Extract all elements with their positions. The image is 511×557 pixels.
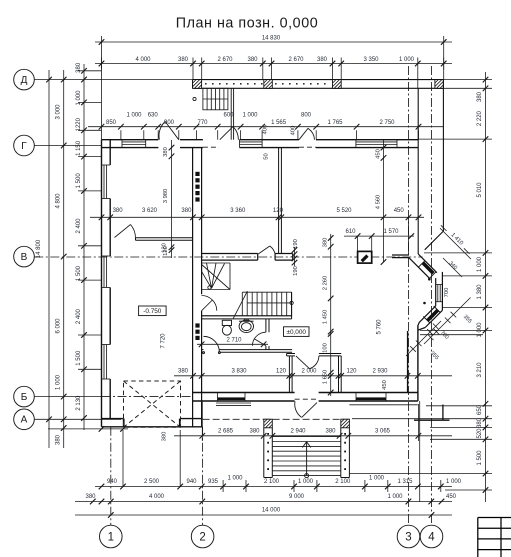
bay right wall + window 700 [436,272,443,310]
bathroom south wall [202,350,293,353]
svg-text:2 930: 2 930 [372,368,388,374]
svg-text:190: 190 [293,266,299,276]
svg-text:2 260: 2 260 [323,276,329,291]
svg-text:380: 380 [477,417,483,428]
door D5 in IW2 [258,246,275,254]
svg-text:3 210: 3 210 [477,362,483,378]
svg-text:1 000: 1 000 [369,476,385,482]
svg-text:650: 650 [477,404,483,415]
partition PT3 [339,356,342,393]
bathroom door [252,332,266,346]
dim row 14 000 [75,512,452,518]
vestibule wall top [231,88,233,139]
svg-text:630: 630 [148,112,159,118]
porch rails [264,428,350,478]
terrace column T2 [264,80,273,89]
ext line horiz at 334.7 [420,334,483,336]
svg-text:800: 800 [301,112,312,118]
title block table corner [478,518,511,557]
axis circle 1 [100,525,123,548]
svg-text:380: 380 [181,208,192,214]
svg-text:2 100: 2 100 [264,479,280,485]
svg-text:940: 940 [107,479,118,485]
svg-text:380: 380 [85,494,96,500]
svg-text:2 220: 2 220 [477,110,483,126]
svg-text:120: 120 [276,368,287,374]
partition left room 120 [136,238,193,241]
dim col 3000/4800/6000/1000/380 [61,70,67,448]
east wall [408,325,418,401]
svg-text:1 000: 1 000 [242,112,258,118]
dim 2710 [197,342,268,348]
svg-text:Б: Б [21,392,28,403]
wall B top face [193,392,418,394]
svg-text:770: 770 [197,120,208,126]
svg-text:400: 400 [263,125,269,135]
small steps below W4 [216,403,251,406]
svg-text:120: 120 [161,243,167,253]
wall A (bottom-left) [102,418,203,420]
svg-text:4 800: 4 800 [56,193,62,209]
svg-text:4 000: 4 000 [149,494,165,500]
dim col 190/190 (x=296) [292,247,298,266]
svg-text:2 100: 2 100 [335,479,351,485]
diag dims 355/700/355 [406,298,471,357]
svg-text:1 150: 1 150 [76,140,82,156]
axis circle Б [14,386,35,407]
door D1 in wall G [159,122,179,140]
dim col right 380/2220/5010/1000/1380/1000/3210/650/380/520/1500 [349,72,492,502]
wall G bottom face [102,147,419,149]
svg-text:1 000: 1 000 [56,374,62,390]
dim row 380/4000/9000/1000/450 [75,499,452,505]
lintel dashes passage P1 [203,146,316,148]
svg-text:2 670: 2 670 [217,57,233,63]
diag dim 1410 [440,225,471,259]
svg-text:В: В [21,252,28,263]
wall G window W1 [122,140,397,148]
svg-text:935: 935 [208,479,219,485]
svg-text:1 000: 1 000 [446,479,462,485]
svg-text:1 000: 1 000 [126,112,142,118]
svg-text:450: 450 [394,208,405,214]
svg-text:50: 50 [264,153,270,159]
bay bottom chamfer wall [418,306,443,330]
dim row 14 830 [95,36,452,48]
svg-text:4: 4 [428,532,435,544]
straight stair run [202,291,292,319]
svg-text:2 400: 2 400 [76,218,82,234]
svg-text:1 000: 1 000 [477,322,483,338]
title [176,15,318,31]
svg-text:3 350: 3 350 [363,57,379,63]
svg-text:380: 380 [317,57,328,63]
dim col 14 800 [46,70,52,448]
axis line 4 (dash-dot) [431,66,433,525]
dim line y=428.9 below A [48,426,128,432]
svg-text:1 500: 1 500 [477,450,483,466]
WC door arc [203,336,221,353]
svg-text:1 000: 1 000 [76,90,82,106]
svg-text:3 980: 3 980 [163,189,169,204]
svg-text:1 765: 1 765 [327,120,343,126]
dim row 940/2500/940/935/1000/2100/1000/2100/1000/1315/1000 [95,430,452,492]
entry double door D4 leaves outside [295,401,317,417]
svg-text:1 380: 1 380 [477,284,483,300]
dim row 380/3830/120/2000/120/2930/450 [174,373,452,379]
axis circle А [14,409,35,430]
dashed terrace with X [124,381,181,427]
terrace entry steps [203,88,228,110]
window W6 jambs in wall A [124,419,180,427]
partition PT2 [287,354,295,393]
svg-text:1 000: 1 000 [387,494,403,500]
svg-text:2 130: 2 130 [76,395,82,411]
svg-text:3 065: 3 065 [375,428,391,434]
svg-text:380: 380 [247,57,258,63]
svg-text:2 710: 2 710 [226,337,242,343]
porch column right [341,419,350,428]
svg-text:450: 450 [375,149,381,159]
sink [239,319,254,333]
porch column left [264,419,273,428]
left exterior wall [102,140,111,427]
door in IW1 (to left room) [202,296,217,311]
svg-text:700: 700 [444,288,450,298]
svg-text:120: 120 [273,208,284,214]
stove column [358,251,372,263]
axis circle В [14,246,35,267]
svg-text:1 000: 1 000 [298,479,314,485]
dim row 4000/380/2670/380/2670/380/3350/1000 [95,48,452,140]
svg-text:-0.750: -0.750 [143,308,162,315]
svg-text:1 650: 1 650 [323,370,329,385]
svg-text:400: 400 [291,126,297,136]
svg-text:900: 900 [164,120,175,126]
terrace top wall [193,80,444,89]
diag dim 340 [443,258,462,277]
svg-text:380: 380 [56,434,62,445]
wall B bottom face [193,400,418,402]
svg-text:3: 3 [405,532,411,544]
IW1 flue squares lower [195,323,199,340]
svg-text:450: 450 [446,494,457,500]
svg-text:1 565: 1 565 [271,120,287,126]
svg-text:610: 610 [345,229,356,235]
IW1 flue squares upper [195,172,199,202]
level +-0,000 [284,327,310,337]
svg-text:Г: Г [21,141,27,152]
svg-text:2 940: 2 940 [290,428,306,434]
bay top chamfer wall [409,254,437,279]
dim col 450/4560 (x=383.5) [381,140,387,265]
svg-text:380: 380 [163,147,169,157]
svg-text:2: 2 [199,532,205,544]
svg-text:380: 380 [178,368,189,374]
svg-text:1 450: 1 450 [323,310,329,325]
svg-text:600: 600 [223,112,234,118]
axis circle 4 [420,525,443,548]
svg-text:380: 380 [249,428,260,434]
dim col 380/2260/1450/100/1650 (x=330.7) [328,234,334,396]
axis line A [34,418,121,420]
svg-text:450: 450 [382,380,388,390]
dim row 850/1000/630/900/770/600/1000/1565/800/1765/2750 [88,124,443,140]
axis circle Г [14,135,35,156]
svg-text:2 500: 2 500 [144,479,160,485]
axis circle 2 [191,525,214,548]
interior wall IW1 [193,148,202,427]
svg-text:3 620: 3 620 [142,208,158,214]
svg-text:2 750: 2 750 [379,120,395,126]
svg-text:3 000: 3 000 [56,104,62,120]
axis line V (dash-dot) [34,256,422,258]
svg-text:380: 380 [162,432,168,442]
svg-text:850: 850 [106,120,117,126]
window W4 in wall B [218,393,246,402]
dim row 610/1570 [344,233,414,251]
svg-text:380: 380 [76,62,82,73]
bathroom east wall [266,319,269,350]
svg-text:380: 380 [113,208,124,214]
door D3 in wall G [299,128,315,139]
svg-text:Д: Д [21,75,28,86]
svg-text:1 500: 1 500 [76,265,82,281]
svg-text:2 685: 2 685 [218,428,234,434]
svg-text:5 760: 5 760 [377,319,383,335]
svg-text:1 500: 1 500 [76,350,82,366]
terrace balusters [205,83,326,85]
left wall windows [102,165,111,379]
svg-text:1 000: 1 000 [399,57,415,63]
axis line 3 (dash-dot) [408,66,410,525]
svg-text:2 670: 2 670 [288,57,304,63]
svg-text:1 500: 1 500 [76,173,82,189]
svg-text:520: 520 [477,428,483,439]
axis line G [34,145,101,147]
stair bottom wall [202,292,292,319]
terrace column T1 [193,80,202,89]
partition PT1 [279,148,282,254]
svg-text:380: 380 [477,91,483,102]
wall B lintel dashes at D4 [295,398,319,400]
svg-text:7 720: 7 720 [161,333,167,349]
bay bottom chamfer window (dark band) [423,306,440,323]
svg-text:1 000: 1 000 [227,476,243,482]
winder stairs [202,263,230,290]
level -0.750 [139,306,167,316]
svg-text:А: А [21,415,28,426]
stair direction arrow [302,442,310,476]
terrace column T4 [435,80,444,89]
svg-text:5 010: 5 010 [477,182,483,198]
dim col 380/1000/1220/1150/1500/2400/1500/2400/1500/2130 [78,64,102,430]
wall V right segment [392,255,409,258]
axis line B(left) [34,396,101,398]
svg-text:380: 380 [323,238,329,248]
svg-text:4 000: 4 000 [135,57,151,63]
dim row 2685/380/2940/380/3065 [174,401,452,441]
southeast terrace edge at A [414,405,450,421]
porch edge line right of B wall [349,401,419,502]
axis circle 3 [397,525,420,548]
veranda right rails [418,80,443,254]
svg-text:1 000: 1 000 [477,256,483,272]
dim row 380/3620/380/3360/120/5520/450 [90,215,424,255]
bay top chamfer window (dark band) [418,261,436,279]
svg-text:380: 380 [325,428,336,434]
svg-text:6 000: 6 000 [56,318,62,334]
svg-text:1220: 1220 [76,117,82,131]
svg-text:1 570: 1 570 [383,229,399,235]
axis line D [34,79,192,81]
porch steps [272,437,341,476]
interior wall IW2 along V [202,254,293,261]
svg-text:380: 380 [178,57,189,63]
svg-text:2 400: 2 400 [76,308,82,324]
svg-text:1: 1 [108,532,114,544]
svg-text:14 800: 14 800 [36,239,42,258]
window W5 in wall B [356,393,386,402]
svg-text:5 520: 5 520 [336,208,352,214]
door in left-room partition [115,225,136,238]
hall top wall with double door D6 [319,354,341,356]
svg-text:14 830: 14 830 [262,36,281,42]
svg-text:120: 120 [346,368,357,374]
svg-text:14 000: 14 000 [262,508,281,514]
terrace column T3 [333,80,342,89]
svg-text:9 000: 9 000 [289,494,305,500]
svg-text:±0,000: ±0,000 [286,329,306,336]
wall G top face [102,139,419,141]
svg-text:3 830: 3 830 [231,368,247,374]
svg-text:План на позн. 0,000: План на позн. 0,000 [176,15,318,31]
door D2 in wall G [220,127,239,140]
svg-text:2 000: 2 000 [301,368,317,374]
svg-text:4 560: 4 560 [375,195,381,210]
toilet [222,320,231,335]
dim col 380/3980/120 (x=171.5) [169,140,175,258]
svg-text:1 315: 1 315 [397,479,413,485]
axis line 1 (dash-dot) [110,427,112,525]
svg-text:190: 190 [293,239,299,249]
axis line 2 (dash-dot) [202,427,204,525]
svg-text:940: 940 [186,479,197,485]
axis circle Д [14,69,35,90]
svg-text:3 360: 3 360 [230,208,246,214]
svg-text:100: 100 [323,343,329,353]
